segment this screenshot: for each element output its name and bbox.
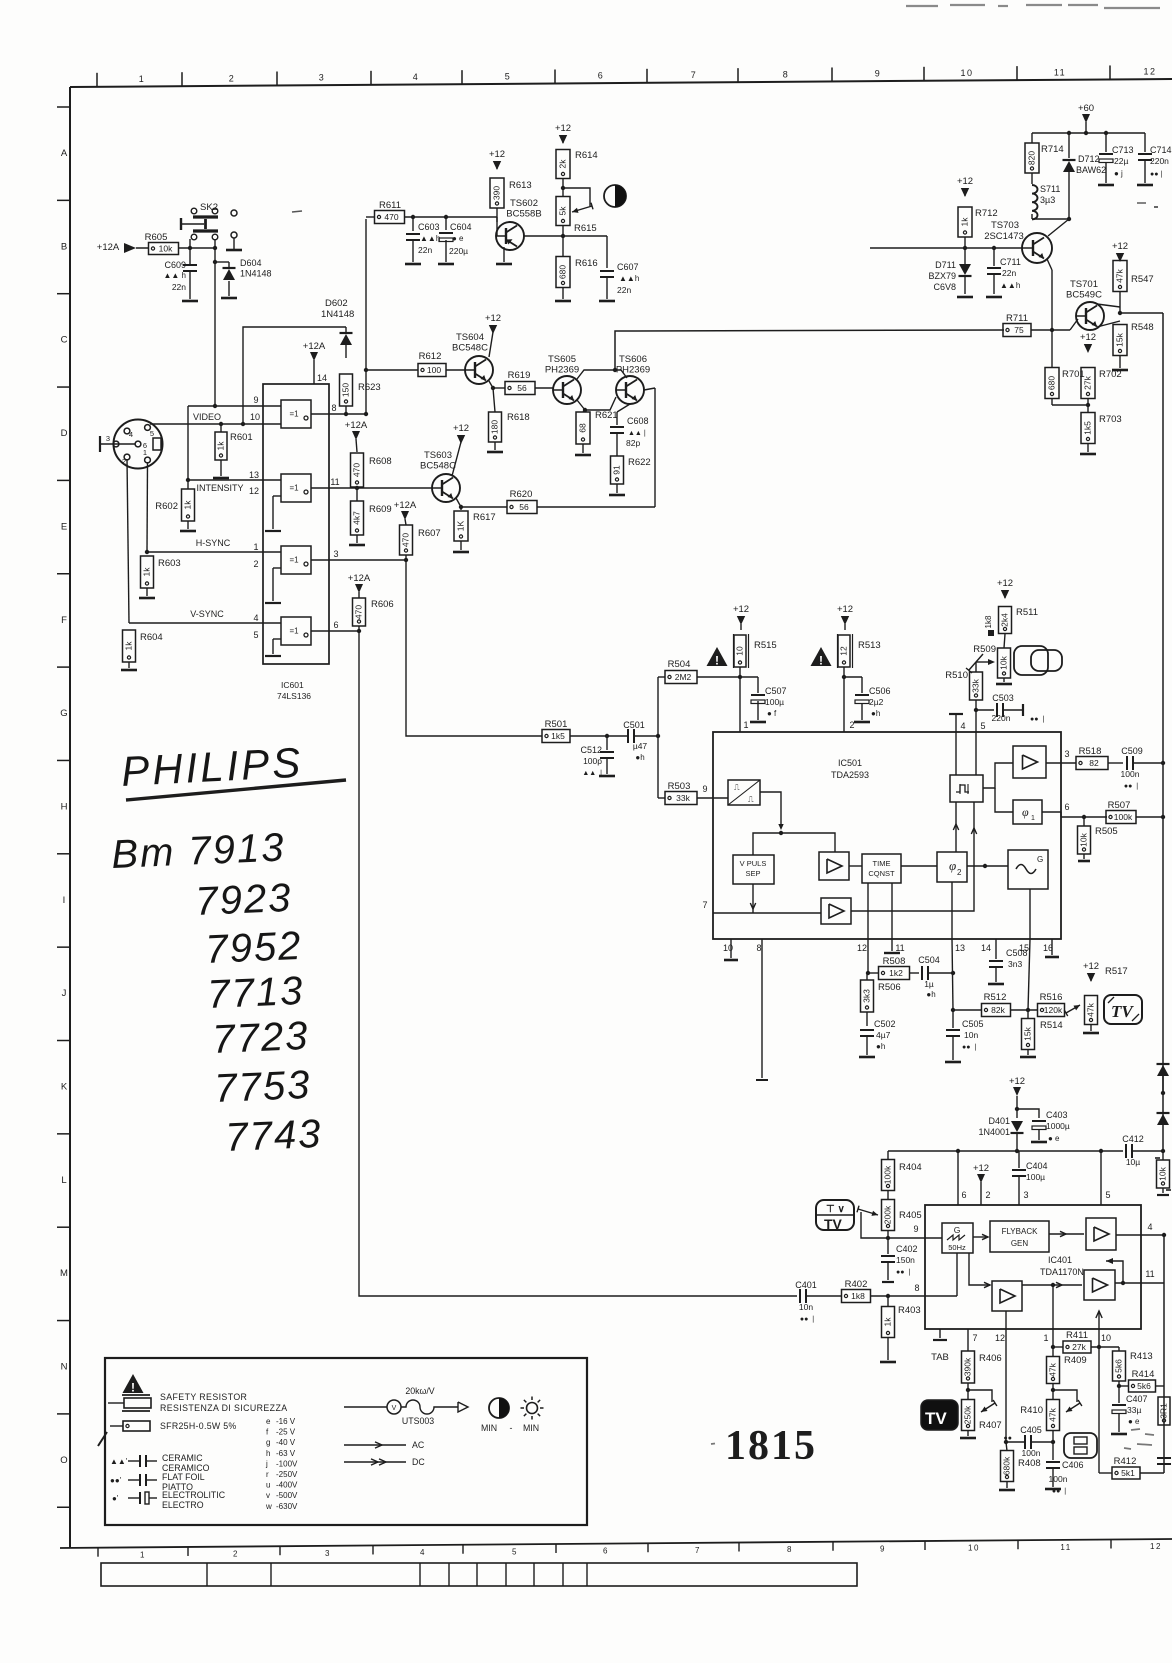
svg-text:S711: S711 xyxy=(1040,184,1060,194)
inductor S711 xyxy=(1032,185,1038,219)
svg-text:TS606: TS606 xyxy=(619,354,647,365)
resistor R605 xyxy=(149,243,179,255)
resistor R602 xyxy=(187,480,189,489)
resistor R614 xyxy=(556,150,570,179)
svg-text:-500V: -500V xyxy=(276,1491,298,1500)
svg-text:C504: C504 xyxy=(918,955,940,965)
wire R405 wiper to pin 9 xyxy=(861,1212,888,1238)
svg-text:▲▲h: ▲▲h xyxy=(1000,281,1020,290)
svg-text:TDA1170N: TDA1170N xyxy=(1040,1267,1084,1277)
svg-text:CQNST: CQNST xyxy=(868,869,895,878)
wire R701/R702 node xyxy=(1052,404,1088,406)
TS602 collector row xyxy=(524,235,607,237)
top ruler ticks xyxy=(96,73,98,87)
ground xyxy=(880,1361,896,1364)
R410 wiper link xyxy=(1053,1390,1077,1402)
svg-text:R619: R619 xyxy=(508,370,531,381)
node vertical C501 to R503/R504 xyxy=(657,677,659,798)
svg-text:4: 4 xyxy=(413,72,420,82)
svg-text:BC548C: BC548C xyxy=(452,343,488,354)
handwritten model list BM 7913 xyxy=(110,825,286,877)
svg-text:C603: C603 xyxy=(418,222,440,232)
svg-text:●●❘: ●●❘ xyxy=(1150,170,1164,178)
handwritten 7952 xyxy=(204,924,303,972)
svg-text:22n: 22n xyxy=(172,282,186,292)
ground xyxy=(121,669,137,672)
svg-text:5k: 5k xyxy=(557,206,567,216)
capacitor C505 xyxy=(952,1010,954,1028)
safety warning triangle xyxy=(707,647,728,666)
ground xyxy=(221,297,237,300)
svg-text:C401: C401 xyxy=(795,1280,817,1290)
wire to amp1 xyxy=(781,833,835,852)
resistor R513 xyxy=(838,635,850,667)
svg-text:33k: 33k xyxy=(676,793,690,803)
svg-text:8: 8 xyxy=(783,69,790,79)
wire R711 to TS701 base xyxy=(1070,319,1078,330)
wire to pin 6 xyxy=(1042,811,1061,813)
svg-text:7923: 7923 xyxy=(194,876,293,924)
svg-text:R516: R516 xyxy=(1040,992,1063,1003)
svg-text:+12: +12 xyxy=(1083,961,1099,972)
svg-text:●●: ●● xyxy=(1004,1435,1012,1442)
svg-text:1: 1 xyxy=(143,448,147,457)
svg-text:C508: C508 xyxy=(1006,948,1028,958)
svg-text:470: 470 xyxy=(400,533,410,547)
resistor R404 xyxy=(887,1151,889,1160)
capacitor C512 xyxy=(600,751,614,753)
svg-text:●h: ●h xyxy=(876,1042,885,1051)
svg-text:R702: R702 xyxy=(1099,369,1122,380)
TV icon (hatched) xyxy=(1104,995,1142,1024)
left ruler ticks xyxy=(57,106,70,108)
svg-text:V PULS: V PULS xyxy=(740,859,767,868)
svg-text:R606: R606 xyxy=(371,599,394,610)
IC401 G 50Hz block xyxy=(942,1223,973,1253)
svg-text:7: 7 xyxy=(691,70,698,80)
transistor TS602 xyxy=(496,222,524,250)
svg-text:TV: TV xyxy=(824,1216,843,1232)
resistor R411 xyxy=(1053,1346,1063,1348)
capacitor C607 xyxy=(606,236,608,268)
svg-text:150: 150 xyxy=(340,383,350,397)
svg-text:C: C xyxy=(61,335,68,346)
svg-text:9: 9 xyxy=(702,784,707,794)
capacitor C603 xyxy=(412,217,414,231)
svg-text:R608: R608 xyxy=(369,456,392,467)
svg-text:82k: 82k xyxy=(991,1005,1005,1015)
svg-text:●● ❘: ●● ❘ xyxy=(800,1315,816,1323)
wire amp2 output xyxy=(851,838,974,911)
svg-text:+12: +12 xyxy=(957,176,973,187)
svg-text:R511: R511 xyxy=(1016,607,1038,618)
transistor TS606 xyxy=(616,376,644,404)
ground xyxy=(996,683,1012,686)
transistor TS604 xyxy=(465,356,493,384)
svg-text:1k: 1k xyxy=(141,567,151,577)
resistor R517 xyxy=(1085,996,1098,1025)
svg-text:3: 3 xyxy=(325,1549,331,1558)
svg-text:100n: 100n xyxy=(1121,769,1140,779)
svg-text:SEP: SEP xyxy=(745,869,760,878)
svg-text:BAW62: BAW62 xyxy=(1076,165,1106,175)
svg-text:F: F xyxy=(61,615,67,626)
svg-text:7713: 7713 xyxy=(206,969,305,1017)
resistor R615 xyxy=(556,197,570,226)
TS606 emitter wire xyxy=(644,388,655,390)
svg-text:R508: R508 xyxy=(883,956,906,967)
svg-text:⊤ ∨: ⊤ ∨ xyxy=(826,1204,845,1215)
capacitor C504 xyxy=(921,966,923,980)
capacitor C404 xyxy=(1012,1169,1026,1171)
svg-text:BZX79: BZX79 xyxy=(928,271,956,281)
svg-text:-250V: -250V xyxy=(276,1470,298,1479)
IC401 pin1 wire xyxy=(1052,1329,1054,1357)
svg-text:1k8: 1k8 xyxy=(851,1291,865,1301)
svg-text:2: 2 xyxy=(229,73,236,83)
capacitor C502 xyxy=(860,1029,874,1031)
svg-text:=1: =1 xyxy=(289,484,299,493)
capacitor C507 xyxy=(751,694,765,696)
wire gate D output long vertical to C401 row xyxy=(359,631,797,1296)
svg-text:●h: ●h xyxy=(926,990,935,999)
transistor TS602 BC558B xyxy=(496,217,498,236)
ground xyxy=(724,959,738,962)
svg-text:C505: C505 xyxy=(962,1019,984,1029)
svg-text:N: N xyxy=(61,1362,68,1373)
ground xyxy=(1112,369,1128,372)
svg-text:▲▲ h: ▲▲ h xyxy=(163,271,186,280)
resistor R618 xyxy=(493,388,495,412)
svg-text:INTENSITY: INTENSITY xyxy=(196,483,243,493)
svg-text:R612: R612 xyxy=(419,351,442,362)
svg-text:7753: 7753 xyxy=(213,1063,312,1111)
wire gate D output row xyxy=(311,630,359,632)
svg-text:▲▲h: ▲▲h xyxy=(420,234,440,243)
handwritten underline xyxy=(126,780,346,800)
TV/monitor mode icon xyxy=(816,1200,854,1230)
svg-text:C507: C507 xyxy=(765,686,787,696)
+60 rail xyxy=(1032,132,1145,134)
svg-text:R514: R514 xyxy=(1040,1020,1063,1031)
TS602 emitter to ground xyxy=(503,247,505,262)
resistor R620 xyxy=(461,506,507,508)
IC401 pin6 wire xyxy=(957,1151,959,1205)
resistor R703 xyxy=(1081,413,1095,444)
svg-text:7: 7 xyxy=(972,1333,977,1343)
svg-text:R411: R411 xyxy=(1066,1330,1088,1341)
net VIDEO xyxy=(150,423,281,425)
capacitor C503 xyxy=(976,709,994,711)
svg-text:MIN: MIN xyxy=(523,1423,539,1433)
legend DC arrow xyxy=(344,1461,406,1463)
svg-text:3: 3 xyxy=(333,549,338,559)
svg-text:g: g xyxy=(266,1438,270,1447)
TS603 emitter junction xyxy=(456,498,461,507)
svg-text:G: G xyxy=(954,1225,961,1235)
IC501 phi1 block xyxy=(1013,800,1042,824)
capacitor C412 xyxy=(1125,1144,1127,1158)
svg-text:!: ! xyxy=(715,654,719,668)
flipflop outputs xyxy=(983,763,1013,788)
svg-text:1k: 1k xyxy=(882,1317,892,1327)
svg-text:10: 10 xyxy=(960,68,973,78)
svg-text:R413: R413 xyxy=(1130,1351,1153,1362)
svg-text:R711: R711 xyxy=(1006,313,1028,324)
TS703 base wire xyxy=(870,247,1022,249)
wire long vertical from R611 to rows xyxy=(365,219,367,414)
capacitor C713 xyxy=(1105,133,1107,152)
net V-SYNC xyxy=(127,459,129,623)
svg-text:Bm 7913: Bm 7913 xyxy=(110,825,286,877)
wire R621 node to TS606 base xyxy=(585,397,616,410)
resistor R611 xyxy=(375,211,405,224)
svg-text:=1: =1 xyxy=(289,410,299,419)
svg-text:φ: φ xyxy=(949,858,956,873)
svg-text:10k: 10k xyxy=(1157,1166,1167,1180)
svg-text:SK2: SK2 xyxy=(200,202,218,213)
svg-text:● j: ● j xyxy=(1114,169,1123,178)
IC401 pin7 wire xyxy=(967,1329,969,1351)
svg-text:TS604: TS604 xyxy=(456,332,484,343)
svg-text:4µ7: 4µ7 xyxy=(876,1030,891,1040)
svg-text:R601: R601 xyxy=(230,432,253,443)
svg-text:● e: ● e xyxy=(1048,1134,1060,1143)
svg-text:D401: D401 xyxy=(988,1116,1010,1126)
svg-text:+12: +12 xyxy=(453,423,469,434)
ground xyxy=(999,1489,1015,1492)
svg-text:7723: 7723 xyxy=(211,1014,310,1062)
svg-text:120k: 120k xyxy=(1044,1005,1063,1015)
IC501 pin 13 node xyxy=(952,939,953,1010)
IC501 flip-flop block xyxy=(950,775,983,802)
resistor R505 xyxy=(1078,826,1091,854)
ground xyxy=(854,721,870,724)
ground xyxy=(988,983,1004,986)
handwritten PHILIPS title xyxy=(120,739,304,795)
svg-text:470: 470 xyxy=(384,212,398,222)
svg-text:R602: R602 xyxy=(155,501,178,512)
wire to pin 3 xyxy=(1046,762,1076,764)
resistor R618 xyxy=(489,412,502,442)
resistor R714 xyxy=(1025,143,1039,173)
svg-text:H: H xyxy=(61,801,68,812)
svg-text:=1: =1 xyxy=(289,627,299,636)
resistor R408 xyxy=(1001,1451,1014,1482)
capacitor C713 xyxy=(1099,153,1113,155)
IC501 oscillator block xyxy=(1008,850,1048,889)
resistor R548 xyxy=(1113,325,1127,356)
svg-text:C501: C501 xyxy=(623,720,645,730)
svg-text:5: 5 xyxy=(980,721,985,731)
gate C unused input stub xyxy=(273,567,281,569)
IC501 pin 4 test stub xyxy=(949,713,963,715)
capacitor C512 xyxy=(606,736,608,750)
svg-text:+12A: +12A xyxy=(394,500,417,511)
IC501 pin 6 node xyxy=(1061,816,1107,818)
resistor R616 xyxy=(556,257,570,288)
capacitor C509 xyxy=(1126,756,1128,770)
svg-text:GEN: GEN xyxy=(1011,1239,1029,1248)
svg-text:TS701: TS701 xyxy=(1070,279,1098,290)
svg-text:R510: R510 xyxy=(945,670,968,681)
right edge vertical bus upper xyxy=(1162,313,1164,1151)
svg-text:100: 100 xyxy=(427,365,441,375)
resistor R410 xyxy=(1047,1400,1060,1431)
svg-text:100µ: 100µ xyxy=(765,697,784,707)
IC501 pin 16 ground xyxy=(1051,939,1053,955)
svg-text:TAB: TAB xyxy=(931,1352,949,1363)
right edge vertical bus lower xyxy=(1163,1234,1165,1473)
capacitor C714 xyxy=(1144,133,1146,152)
ground xyxy=(957,296,973,299)
svg-text:+12A: +12A xyxy=(345,420,368,431)
wire D602 branch to VIDEO net xyxy=(243,327,346,424)
svg-text:91: 91 xyxy=(611,465,621,475)
svg-text:7743: 7743 xyxy=(224,1112,323,1160)
svg-text:FLAT FOIL: FLAT FOIL xyxy=(162,1472,205,1482)
resistor R617 xyxy=(454,511,468,541)
wire amp1 to time const xyxy=(849,865,862,867)
svg-text:10k: 10k xyxy=(998,655,1008,669)
gate B unused input stub xyxy=(273,495,281,497)
capacitor C507 xyxy=(757,677,759,693)
resistor R413 xyxy=(1113,1351,1126,1381)
svg-text:100n: 100n xyxy=(1049,1474,1068,1484)
svg-text:R622: R622 xyxy=(628,457,651,468)
capacitor C407 xyxy=(1112,1404,1126,1406)
IC501 pin 11 stub xyxy=(891,939,893,951)
IC501 bottom internal stubs xyxy=(867,883,869,939)
svg-text:6: 6 xyxy=(1064,802,1069,812)
svg-text:6: 6 xyxy=(333,620,338,630)
resistor R623 xyxy=(340,374,353,406)
svg-text:+12: +12 xyxy=(1080,332,1096,343)
svg-text:R402: R402 xyxy=(845,1279,868,1290)
svg-text:R410: R410 xyxy=(1020,1405,1043,1416)
resistor R604 xyxy=(123,630,136,662)
DIN cable stub xyxy=(100,443,135,445)
svg-text:13: 13 xyxy=(955,943,965,953)
IC501 pin 10 ground xyxy=(730,939,732,958)
svg-text:82p: 82p xyxy=(626,438,640,448)
svg-text:BC548C: BC548C xyxy=(420,461,456,472)
wire gate A output row xyxy=(311,413,366,415)
capacitor C508 xyxy=(989,960,1003,962)
svg-text:R512: R512 xyxy=(984,992,1007,1003)
svg-text:MIN: MIN xyxy=(481,1423,497,1433)
svg-text:R613: R613 xyxy=(509,180,532,191)
svg-text:3: 3 xyxy=(1064,749,1069,759)
ground xyxy=(349,544,365,547)
svg-text:3n3: 3n3 xyxy=(1008,959,1022,969)
wire G bottom to pin8 xyxy=(956,1253,958,1296)
resistor R509 xyxy=(998,648,1011,678)
ground xyxy=(575,454,591,457)
svg-text:1k: 1k xyxy=(182,500,192,510)
resistor R621 xyxy=(583,410,585,412)
svg-text:10n: 10n xyxy=(799,1302,813,1312)
resistor R403 xyxy=(887,1296,889,1307)
svg-text:●●': ●●' xyxy=(110,1476,122,1485)
resistor R609 xyxy=(351,501,364,535)
IC401 pin5 wire xyxy=(1100,1151,1102,1205)
svg-text:2: 2 xyxy=(253,559,258,569)
capacitor C714 xyxy=(1138,153,1152,155)
svg-text:200k: 200k xyxy=(882,1205,892,1224)
svg-text:● f: ● f xyxy=(767,709,777,718)
svg-text:-63 V: -63 V xyxy=(276,1449,296,1458)
svg-text:R547: R547 xyxy=(1131,274,1154,285)
diode D712 xyxy=(1063,159,1076,161)
V PULS SEP output arrow to pin7 row xyxy=(752,884,754,907)
svg-text:G: G xyxy=(60,708,67,719)
resistor R506 xyxy=(866,973,868,980)
transistor TS605 xyxy=(553,376,581,404)
net H-SYNC xyxy=(146,462,149,552)
svg-text:100µ: 100µ xyxy=(1026,1172,1045,1182)
svg-text:+12: +12 xyxy=(485,313,501,324)
svg-text:470: 470 xyxy=(351,463,361,477)
svg-text:+12A: +12A xyxy=(97,242,120,253)
capacitor C503 xyxy=(996,703,998,717)
svg-text:1: 1 xyxy=(1043,1333,1048,1343)
deflection yoke icon xyxy=(1014,646,1048,675)
svg-text:33µ: 33µ xyxy=(1127,1405,1141,1415)
svg-text:=1: =1 xyxy=(289,556,299,565)
resistor R617 xyxy=(460,507,462,510)
svg-text:▲▲h: ▲▲h xyxy=(619,274,639,283)
svg-text:C404: C404 xyxy=(1026,1161,1048,1171)
svg-text:IC501: IC501 xyxy=(838,758,862,768)
svg-text:15k: 15k xyxy=(1114,332,1124,346)
svg-text:7: 7 xyxy=(702,900,707,910)
svg-text:1N4148: 1N4148 xyxy=(321,309,354,320)
diode Dbus2 xyxy=(1157,1112,1170,1114)
ground xyxy=(1080,453,1096,456)
svg-text:UTS003: UTS003 xyxy=(402,1416,434,1426)
svg-text:h: h xyxy=(266,1449,270,1458)
svg-text:1: 1 xyxy=(139,74,146,84)
svg-text:50Hz: 50Hz xyxy=(948,1243,966,1252)
svg-text:FLYBACK: FLYBACK xyxy=(1002,1227,1039,1236)
IC501 pin 7 row xyxy=(713,912,821,914)
svg-text:5: 5 xyxy=(505,71,512,81)
svg-text:+12: +12 xyxy=(973,1163,989,1174)
trimmer icon xyxy=(1064,1433,1097,1458)
handwritten 7713 xyxy=(206,969,305,1017)
R615 wiper link xyxy=(563,188,590,206)
svg-text:1000µ: 1000µ xyxy=(1046,1121,1070,1131)
svg-text:BC558B: BC558B xyxy=(506,209,541,220)
IC401 output amp block xyxy=(1086,1218,1116,1250)
resistor R606 xyxy=(353,598,366,626)
svg-text:14: 14 xyxy=(317,373,327,383)
wire pin4 out xyxy=(1116,1234,1164,1236)
ground xyxy=(599,300,615,303)
handwritten 7743 xyxy=(224,1112,323,1160)
svg-text:5: 5 xyxy=(512,1547,518,1556)
svg-text:TS605: TS605 xyxy=(548,354,576,365)
IC501 amp2 block lower xyxy=(821,898,851,924)
resistor R402 xyxy=(842,1290,871,1303)
svg-text:4: 4 xyxy=(129,430,133,439)
svg-text:SAFETY RESISTOR: SAFETY RESISTOR xyxy=(160,1392,247,1402)
svg-text:AC: AC xyxy=(412,1440,425,1450)
svg-text:12: 12 xyxy=(1150,1542,1162,1551)
wire flyback to output amp xyxy=(1049,1233,1084,1235)
svg-text:1815: 1815 xyxy=(725,1423,817,1469)
